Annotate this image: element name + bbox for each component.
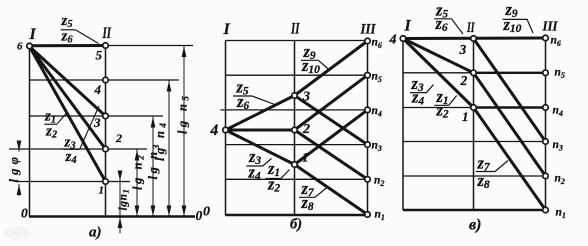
leader of fraction z5/z6 (panel a) — [76, 30, 99, 44]
shaft III (panel b) — [367, 41, 369, 216]
fraction z5/z6 (panel v) — [434, 1, 463, 35]
svg-text:n5: n5 — [555, 67, 565, 81]
zero axis (panel b) — [226, 214, 368, 217]
fraction z1/z2 (panel v) — [434, 87, 456, 121]
transmission line 4-2 (z3/z4) — [226, 129, 295, 132]
transmission line 6-3 — [30, 47, 106, 117]
svg-text:3: 3 — [93, 115, 101, 130]
svg-text:lg n4: lg n4 — [153, 120, 168, 161]
transmission line 2-n5 horizontal — [474, 72, 546, 74]
dimension line lg n3 — [152, 116, 154, 217]
node n6 (panel b) — [365, 38, 371, 44]
fraction z5/z6 (panel a) — [61, 13, 76, 46]
dimension line lg n1 — [119, 172, 121, 233]
svg-text:2: 2 — [460, 73, 468, 88]
svg-text:в): в) — [469, 217, 481, 234]
grid line n4 level (panel v) — [403, 107, 474, 109]
transmission line 1-n1 (z7/z8) — [295, 165, 368, 215]
shaft III (panel v) — [545, 38, 547, 211]
svg-text:lgφ: lgφ — [7, 153, 21, 183]
svg-text:4: 4 — [389, 33, 397, 48]
grid line n6 level (panel b) — [226, 40, 368, 42]
fraction z3/z4 (panel v) — [410, 74, 434, 108]
fraction z7/z8 (panel b) — [299, 179, 328, 213]
leader of fraction z1/z2 (panel a) — [58, 113, 68, 124]
grid line n4 level (panel a) — [30, 79, 180, 81]
svg-text:z4: z4 — [65, 149, 77, 166]
svg-text:II: II — [102, 25, 112, 42]
svg-text:lg n2: lg n2 — [131, 153, 146, 190]
zero axis (panel a) — [29, 215, 195, 218]
dimension line lg n2 — [136, 149, 138, 217]
svg-text:z5: z5 — [61, 13, 73, 30]
transmission line 4-2 (z3/z4) — [403, 39, 474, 73]
svg-text:I: I — [404, 18, 412, 35]
svg-text:I: I — [29, 26, 37, 43]
svg-text:III: III — [542, 20, 558, 35]
node 1 — [103, 179, 109, 185]
shaft II (panel b) — [294, 41, 296, 216]
node 4 (panel v) — [400, 36, 406, 42]
transmission line 1-n4 horizontal — [474, 106, 546, 108]
node 1 (panel v) — [471, 105, 477, 111]
transmission line 6-5 (z5/z6) — [30, 44, 106, 47]
node 2 — [103, 146, 109, 152]
shaft II (panel v) — [473, 38, 475, 210]
node n3 (panel b) — [365, 142, 371, 148]
grid line n1 level (panel a) — [15, 181, 130, 183]
svg-text:4: 4 — [94, 82, 102, 97]
faint page bleed-through smudge — [4, 226, 30, 240]
shaft I (panel v) — [402, 39, 404, 211]
zero axis (panel v) — [403, 209, 546, 212]
shaft I (panel b) — [225, 41, 227, 216]
svg-text:0: 0 — [196, 208, 203, 223]
node 5 — [103, 43, 109, 49]
node n4 (panel b) — [365, 107, 371, 113]
node n5 (panel v) — [543, 70, 549, 76]
fraction z9/z10 (panel v) — [503, 0, 534, 35]
grid line n2 level (panel b) — [226, 178, 368, 180]
svg-text:0: 0 — [21, 206, 28, 221]
transmission line 2-n2 — [295, 130, 368, 179]
fraction z9/z10 (panel b) — [301, 42, 330, 76]
leader of fraction z3/z4 (panel a) — [80, 106, 99, 149]
fraction z3/z4 (panel a) — [63, 135, 80, 167]
fraction z5/z6 (panel b) — [233, 78, 276, 113]
dimension lg phi lower arrow — [18, 184, 20, 196]
node n4 (panel v) — [543, 105, 549, 111]
transmission line 1-n1 (z7/z8) — [474, 108, 546, 211]
svg-text:1: 1 — [462, 109, 469, 124]
transmission line 3-n6 (z9/z10) — [295, 41, 368, 96]
svg-text:4: 4 — [210, 122, 219, 139]
transmission line 4-3 (z5/z6) — [226, 96, 295, 131]
svg-text:6: 6 — [17, 41, 23, 53]
svg-text:n4: n4 — [553, 105, 563, 119]
node n2 (panel b) — [365, 177, 371, 183]
fraction z1/z2 (panel b) — [266, 159, 290, 195]
svg-text:а): а) — [89, 225, 102, 241]
grid line n4 level (panel b) — [221, 109, 368, 111]
transmission line 4-1 (z1/z2) — [403, 39, 474, 108]
node 3 — [103, 113, 109, 119]
svg-text:2: 2 — [302, 122, 310, 137]
svg-text:n3: n3 — [372, 140, 382, 154]
svg-text:lgn1: lgn1 — [118, 188, 131, 210]
svg-text:z6: z6 — [61, 29, 74, 46]
svg-text:II: II — [290, 21, 300, 38]
svg-text:1: 1 — [99, 185, 105, 197]
grid line n2 level (panel a) — [9, 148, 147, 150]
transmission line 4-1 (z1/z2) — [226, 130, 295, 165]
grid line n2 level (panel v) — [403, 175, 546, 177]
transmission line 4-3-n6 horizontal (z5/z6, z9/z10) — [403, 37, 546, 41]
transmission line 1-n4 — [295, 110, 368, 165]
svg-text:II: II — [466, 20, 475, 36]
svg-text:n1: n1 — [375, 209, 385, 223]
transmission line 6-1 (z1/z2) — [30, 47, 106, 182]
transmission line 2-n5 — [295, 75, 368, 130]
fraction z7/z8 (panel v) — [476, 154, 508, 192]
svg-text:n2: n2 — [555, 173, 565, 187]
svg-text:3: 3 — [302, 90, 310, 105]
svg-text:2: 2 — [115, 131, 122, 145]
svg-text:n1: n1 — [556, 207, 566, 221]
svg-text:n2: n2 — [374, 175, 384, 189]
dimension lg phi upper arrow — [18, 141, 20, 152]
node 3 (panel v) — [471, 36, 477, 42]
grid line n5 level right part (panel a) — [106, 45, 194, 47]
svg-text:lg n5: lg n5 — [176, 93, 191, 134]
grid line n3 level (panel b) — [226, 144, 368, 146]
grid line n3 level (panel a) — [30, 115, 164, 117]
node n6 (panel v) — [543, 35, 549, 41]
svg-text:z2: z2 — [45, 124, 58, 141]
node n1 (panel b) — [365, 212, 371, 218]
svg-text:III: III — [360, 22, 377, 38]
svg-text:б): б) — [290, 217, 302, 233]
dimension line lg n5 — [183, 46, 185, 217]
grid line n5 level (panel b) — [226, 74, 368, 76]
node n2 (panel v) — [543, 173, 549, 179]
node 4 (panel b) — [223, 127, 229, 133]
svg-text:n6: n6 — [551, 35, 561, 49]
node 3 (panel b) — [292, 93, 298, 99]
fraction z3/z4 (panel b) — [246, 147, 271, 183]
node n1 (panel v) — [543, 207, 549, 213]
grid line n5 level (panel v) — [403, 72, 474, 74]
svg-text:n3: n3 — [553, 139, 563, 153]
svg-text:n6: n6 — [372, 37, 382, 51]
node 1 (panel b) — [292, 162, 298, 168]
shaft II (panel a) — [105, 45, 107, 217]
svg-text:n4: n4 — [372, 105, 382, 119]
svg-text:0: 0 — [203, 205, 210, 220]
svg-text:z8: z8 — [477, 171, 490, 191]
svg-text:n5: n5 — [372, 71, 382, 85]
transmission line 6-2 — [30, 47, 106, 150]
grid line n3 level (panel v) — [403, 141, 546, 143]
transmission line 3-n3 — [295, 96, 368, 145]
node n5 (panel b) — [365, 72, 371, 78]
svg-text:1: 1 — [302, 150, 309, 165]
dimension line lg n4 — [168, 80, 170, 217]
svg-text:3: 3 — [459, 42, 467, 57]
transmission line 3-n3 — [474, 39, 546, 142]
shaft I (panel a) — [29, 46, 31, 217]
svg-text:5: 5 — [96, 48, 103, 63]
fraction z1/z2 (panel a) — [44, 109, 58, 141]
svg-text:I: I — [223, 21, 231, 38]
node 6 — [27, 43, 33, 49]
node 2 (panel v) — [471, 70, 477, 76]
transmission line 2-n2 — [474, 73, 546, 176]
node 2 (panel b) — [292, 127, 298, 133]
node 4 — [103, 77, 109, 83]
node n3 (panel v) — [543, 139, 549, 145]
